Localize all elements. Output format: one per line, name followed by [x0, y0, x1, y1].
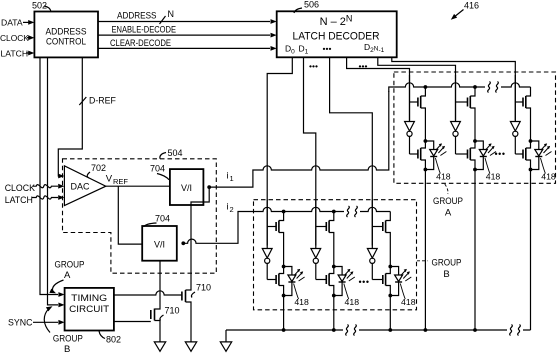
laser diode 418 group A col3 [531, 141, 543, 170]
transistor upper group A col1 [410, 87, 426, 141]
wire group B net from address control [48, 57, 65, 307]
transistor lower group B col2 [316, 267, 334, 296]
wire to group A col1 gate [347, 57, 410, 120]
svg-text:GROUP: GROUP [53, 334, 83, 345]
node bottom A col2 [473, 328, 477, 332]
wire group A anode rail [389, 82, 531, 93]
transistor upper group B col3 [372, 212, 390, 267]
wire cathode line down group B col1 [283, 296, 285, 331]
svg-text:GROUP: GROUP [55, 260, 85, 271]
label CLEAR-DECODE [110, 38, 171, 48]
label DATA [1, 17, 23, 27]
label 704 (lower) [144, 214, 171, 227]
wire i2 rail [183, 206, 390, 243]
arrow 416 [449, 10, 463, 22]
label GROUP B (right) [417, 258, 462, 281]
wire to group B col3 gate [330, 57, 373, 245]
label 416 [464, 1, 479, 11]
label CLOCK (top) [0, 33, 29, 43]
wire CLOCK input [27, 35, 34, 40]
node upper group A col3 [529, 139, 533, 143]
wire V/I 2 to lower 710 drain [155, 261, 161, 309]
label i2 [227, 202, 234, 215]
laser diode 418 group B col2 [334, 267, 346, 296]
label 710 (lower) [160, 306, 180, 321]
svg-text:CLOCK: CLOCK [0, 33, 29, 43]
pin label D0 [285, 44, 295, 56]
ellipsis below decoder right [359, 61, 368, 71]
svg-text:D2N-1: D2N-1 [364, 42, 385, 54]
node upper group A col2 [473, 139, 477, 143]
node V/I 1 output [207, 185, 211, 189]
transistor lower group A col1 [410, 141, 426, 170]
wire cathode line down group B col3 [389, 296, 391, 331]
label GROUP A (timing) [49, 260, 84, 296]
svg-text:LATCH DECODER: LATCH DECODER [293, 31, 380, 43]
transistor lower group B col3 [372, 267, 390, 296]
svg-text:TIMING: TIMING [71, 293, 107, 303]
label 418 group A col3 [541, 158, 556, 182]
svg-text:V: V [106, 174, 113, 185]
inverter group A col1 [405, 122, 415, 155]
label 418 group B col1 [294, 284, 309, 308]
svg-text:418: 418 [436, 172, 451, 182]
svg-text:•••: ••• [323, 44, 332, 54]
node upper group B col2 [332, 265, 336, 269]
op-amp DAC (702) [64, 166, 105, 206]
wire gate line group B col2 [315, 200, 317, 249]
wire gate line group A col3 [514, 75, 516, 122]
svg-text:SYNC: SYNC [8, 318, 33, 328]
svg-text:502: 502 [32, 1, 47, 11]
svg-text:418: 418 [345, 297, 360, 307]
label 418 group A col2 [485, 158, 500, 182]
wire cathode line down group B col2 [333, 296, 335, 331]
wire timing to lower 710 gate [114, 321, 151, 323]
svg-text:D0: D0 [285, 44, 295, 56]
light rays group B col2 [344, 269, 355, 281]
wire gate line group B col1 [266, 200, 268, 249]
svg-text:LATCH: LATCH [1, 48, 29, 58]
wire VREF to V/I 2 [118, 186, 142, 244]
node lower group A col1 [424, 168, 428, 172]
label VREF [106, 174, 129, 187]
node i2 at group B col1 [282, 210, 286, 214]
svg-text:B: B [64, 344, 70, 353]
svg-text:N: N [168, 9, 175, 19]
wire group A net from address control [40, 57, 65, 297]
wire timing to upper 710 gate [114, 291, 182, 295]
svg-text:702: 702 [91, 163, 106, 173]
svg-text:N – 2N: N – 2N [320, 14, 353, 29]
transistor 710 (upper) [182, 290, 191, 342]
wire CLEAR-DECODE bus [98, 46, 277, 51]
wire CLOCK to DAC [33, 184, 64, 189]
inverter group B col1 [262, 249, 272, 280]
svg-text:DATA: DATA [1, 17, 23, 27]
label 704 (upper) [150, 164, 169, 180]
node lower group B col3 [388, 294, 392, 298]
svg-text:710: 710 [196, 283, 211, 293]
svg-text:ADDRESS: ADDRESS [117, 11, 157, 21]
svg-text:CLEAR-DECODE: CLEAR-DECODE [110, 38, 171, 48]
box V/I upper (704) [170, 169, 204, 205]
svg-text:704: 704 [155, 214, 170, 224]
label 504 [160, 148, 183, 159]
node lower group B col2 [332, 294, 336, 298]
label SYNC [8, 318, 33, 328]
svg-text:504: 504 [168, 148, 183, 158]
label i1 [227, 171, 234, 184]
slash D-REF [79, 97, 86, 105]
node bottom A col1 [424, 328, 428, 332]
label GROUP B (timing) [44, 304, 83, 353]
ellipsis group A [495, 149, 506, 159]
label 710 (upper) [191, 283, 211, 298]
node i2 at group B col2 [332, 210, 336, 214]
dashed box group A [394, 72, 556, 183]
svg-text:•••: ••• [495, 149, 506, 159]
label CLOCK (DAC) [5, 183, 35, 193]
inverter group B col3 [367, 249, 377, 280]
light rays group B col3 [401, 269, 412, 281]
node rail at group A col2 [473, 85, 477, 89]
svg-text:802: 802 [106, 335, 121, 345]
box LATCH DECODER (506) [277, 11, 397, 57]
light rays group A col3 [541, 143, 552, 155]
svg-text:i: i [227, 171, 229, 182]
transistor lower group A col2 [456, 141, 476, 170]
dashed box 504 [63, 159, 217, 273]
svg-text:416: 416 [464, 1, 479, 11]
label D-REF [89, 96, 117, 106]
label ENABLE-DECODE [112, 24, 177, 34]
label LATCH (top) [1, 48, 29, 58]
svg-text:DAC: DAC [71, 182, 91, 192]
svg-text:A: A [64, 270, 71, 281]
svg-text:418: 418 [401, 297, 416, 307]
inverter group A col2 [451, 122, 461, 155]
label 702 [87, 163, 106, 178]
node bottom B col1 [282, 328, 286, 332]
wire gate line group A col1 [409, 75, 411, 122]
svg-text:D-REF: D-REF [89, 96, 117, 106]
ellipsis below decoder left [309, 61, 318, 71]
svg-text:LATCH: LATCH [5, 195, 33, 205]
bus width slash N [160, 9, 175, 24]
box ADDRESS CONTROL (502) [34, 12, 98, 58]
laser diode 418 group A col1 [425, 141, 437, 170]
svg-text:V/I: V/I [181, 183, 192, 193]
svg-text:CIRCUIT: CIRCUIT [69, 304, 109, 314]
svg-text:A: A [445, 208, 452, 219]
dashed box group B [254, 200, 417, 310]
wire to group A col2 gate [378, 57, 456, 120]
wire VREF to V/I 1 [106, 185, 170, 187]
svg-text:REF: REF [113, 177, 128, 186]
svg-text:CLOCK: CLOCK [5, 183, 35, 193]
svg-text:418: 418 [541, 172, 556, 182]
label 502 [32, 1, 51, 12]
ground (cathode rail) [220, 330, 231, 351]
svg-text:B: B [443, 269, 449, 280]
ellipsis decoder outputs [323, 44, 332, 54]
wire LATCH input [26, 51, 34, 56]
node V/I 2 output [181, 241, 185, 245]
svg-text:V/I: V/I [154, 240, 165, 250]
wire gate line group A col2 [455, 75, 457, 122]
transistor upper group B col2 [316, 212, 334, 267]
svg-text:GROUP: GROUP [433, 196, 463, 207]
label 802 [99, 331, 121, 345]
svg-text:ENABLE-DECODE: ENABLE-DECODE [112, 24, 177, 34]
wire D0 to group B col1 gate [267, 57, 292, 245]
svg-text:710: 710 [165, 306, 180, 316]
wire ENABLE-DECODE bus [98, 33, 277, 38]
node lower group A col3 [529, 168, 533, 172]
wire cathode line down group A col1 [424, 170, 426, 331]
laser diode 418 group B col3 [390, 267, 402, 296]
wire D-REF [58, 57, 82, 178]
label 418 group B col3 [400, 284, 415, 308]
wire LATCH to DAC [32, 195, 64, 200]
wire ADDRESS bus [98, 19, 277, 24]
svg-text:i: i [227, 202, 229, 213]
transistor upper group A col2 [456, 87, 476, 141]
label LATCH (DAC) [5, 195, 33, 205]
transistor upper group B col1 [267, 212, 283, 267]
svg-text:2: 2 [230, 205, 234, 214]
node upper group B col3 [388, 265, 392, 269]
transistor upper group A col3 [515, 87, 530, 141]
inverter group A col3 [510, 122, 520, 155]
light rays group B col1 [294, 269, 305, 281]
node lower group B col1 [282, 294, 286, 298]
laser diode 418 group A col2 [475, 141, 487, 170]
laser diode 418 group B col1 [284, 267, 296, 296]
wire gate line group B col3 [371, 200, 373, 249]
svg-text:1: 1 [230, 174, 234, 183]
label 418 group A col1 [435, 158, 450, 182]
label GROUP A (right) [433, 184, 463, 219]
box V/I lower (704) [142, 226, 177, 261]
inverter group B col2 [311, 249, 321, 280]
svg-text:CONTROL: CONTROL [46, 37, 86, 47]
svg-text:D1: D1 [299, 44, 309, 56]
pin label D2N-1 [364, 42, 385, 54]
wire SYNC input [33, 320, 65, 325]
wire cathode line down group A col3 [530, 170, 532, 331]
wire D1 to group B col2 gate [304, 57, 316, 245]
wire i1 rail [209, 91, 389, 187]
svg-text:506: 506 [304, 0, 319, 10]
wire cathode rail (bottom) [226, 325, 531, 336]
wire V/I 1 to transistor 710 drain [186, 187, 210, 290]
node bottom B col3 [388, 328, 392, 332]
svg-text:GROUP: GROUP [432, 258, 462, 269]
node rail at group A col1 [424, 85, 428, 89]
pin label D1 [299, 44, 309, 56]
light rays group A col2 [486, 143, 497, 155]
label 418 group B col2 [344, 284, 359, 308]
svg-text:418: 418 [294, 297, 309, 307]
ground (upper 710) [185, 342, 196, 351]
transistor 710 (lower) [151, 309, 160, 342]
svg-text:•••: ••• [359, 277, 370, 287]
label ADDRESS [117, 11, 157, 21]
node lower group A col2 [473, 168, 477, 172]
svg-text:•••: ••• [309, 61, 318, 71]
transistor lower group B col1 [267, 267, 283, 296]
wire D2N-1 to group A col3 gate [392, 57, 516, 120]
wire cathode line down group A col2 [474, 170, 476, 331]
svg-text:704: 704 [150, 164, 165, 174]
wire DATA input [23, 20, 34, 25]
ellipsis group B [359, 277, 370, 287]
ground (lower 710) [154, 342, 165, 351]
node upper group A col1 [424, 139, 428, 143]
svg-text:ADDRESS: ADDRESS [46, 27, 87, 37]
svg-text:•••: ••• [359, 61, 368, 71]
node upper group B col1 [282, 265, 286, 269]
label 506 [294, 0, 319, 13]
transistor lower group A col3 [515, 141, 530, 170]
light rays group A col1 [436, 143, 447, 155]
svg-text:418: 418 [486, 172, 501, 182]
node bottom B col2 [332, 328, 336, 332]
box TIMING CIRCUIT (802) [65, 288, 114, 331]
